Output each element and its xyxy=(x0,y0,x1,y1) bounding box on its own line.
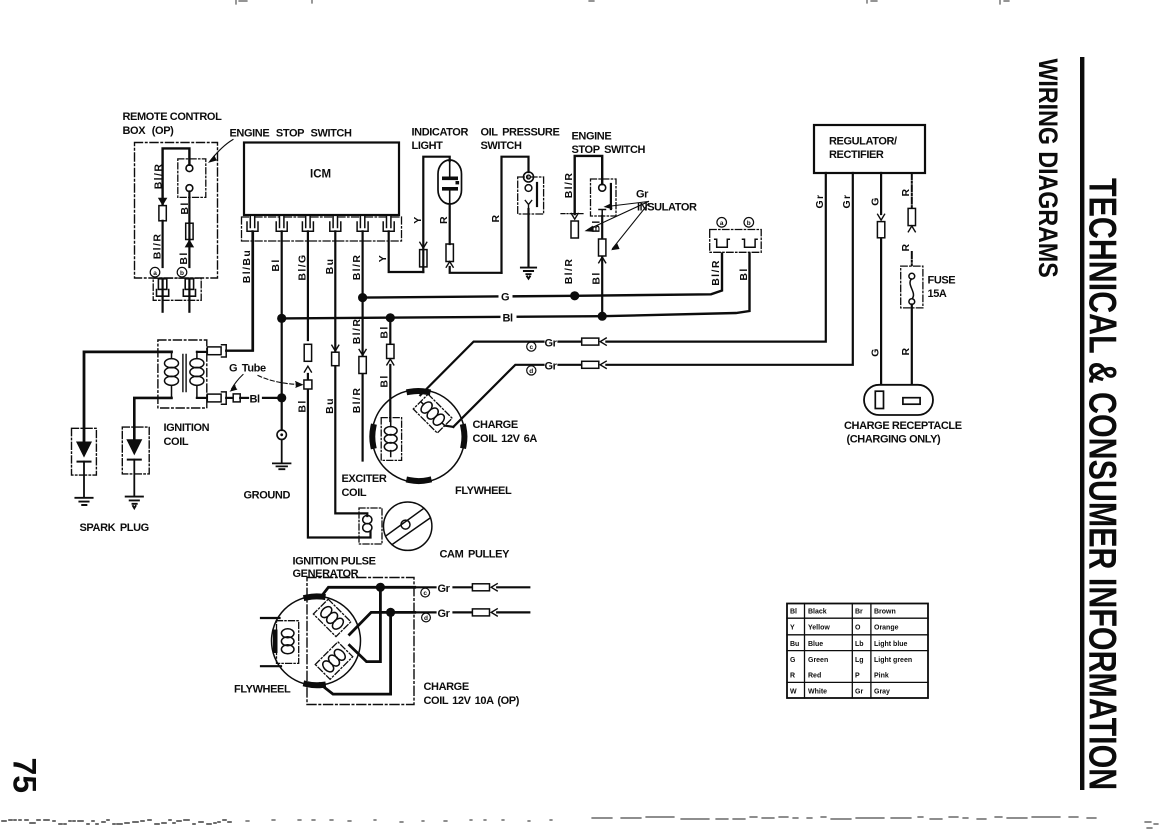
svg-text:Gr: Gr xyxy=(545,338,558,350)
connector (G): female body xyxy=(877,222,884,238)
svg-text:G: G xyxy=(869,196,881,206)
svg-text:Orange: Orange xyxy=(874,625,899,632)
cam pulley P1 disc xyxy=(384,502,432,550)
wire: remote right tail xyxy=(188,279,190,312)
svg-text:REGULATOR/: REGULATOR/ xyxy=(829,136,897,148)
svg-text:FLYWHEEL: FLYWHEEL xyxy=(234,684,291,696)
pin 1 xyxy=(247,215,258,231)
svg-text:Bl/R: Bl/R xyxy=(153,163,165,190)
svg-text:Light blue: Light blue xyxy=(874,641,908,648)
connector (SW2 right): male arrow xyxy=(599,257,606,263)
svg-text:COIL 12V 10A (OP): COIL 12V 10A (OP) xyxy=(424,695,520,707)
svg-text:a: a xyxy=(153,270,157,277)
connector (R): male arrow xyxy=(908,226,915,232)
pin 2 xyxy=(276,215,287,231)
svg-text:CHARGE: CHARGE xyxy=(473,419,518,431)
charge receptacle J1 R slot xyxy=(903,398,920,405)
svg-text:Bl/R: Bl/R xyxy=(152,233,164,260)
wire: T1 Bl/Bu terminal xyxy=(197,351,207,353)
svg-text:W: W xyxy=(790,689,797,696)
svg-text:Bl: Bl xyxy=(296,399,308,412)
flywheel FW2 pole shoes xyxy=(306,596,323,685)
svg-text:CHARGE RECEPTACLE: CHARGE RECEPTACLE xyxy=(844,420,962,432)
insulator tick on SW2 left wire xyxy=(561,213,585,215)
connector (pin5 wire): female body xyxy=(359,357,366,374)
svg-text:FLYWHEEL: FLYWHEEL xyxy=(455,485,512,497)
wire: connector to G tube xyxy=(226,397,233,399)
transformer T1 secondary winding xyxy=(190,352,204,398)
pin 5 xyxy=(357,215,368,231)
wire: E2 to ground xyxy=(133,460,135,497)
flywheel FW1 pole shoes xyxy=(372,391,464,481)
node a (remote): circled letter xyxy=(150,267,160,277)
junction: pin2 x ignition coil lead xyxy=(277,393,286,402)
connector (indicator Y): male arrow xyxy=(420,242,427,248)
spark plug E1 gap electrode xyxy=(78,461,91,463)
charge receptacle J1 G slot xyxy=(875,391,883,408)
svg-text:CAM PULLEY: CAM PULLEY xyxy=(440,549,511,561)
cam pulley P1 key slot xyxy=(386,508,431,544)
node d (lower): circled letter xyxy=(422,613,431,622)
svg-text:Bl: Bl xyxy=(179,201,191,214)
svg-text:Bl: Bl xyxy=(738,267,750,280)
node c (lower): circled letter xyxy=(421,588,430,597)
wire: VR1 pin2 Gr to charge coil L2 xyxy=(453,173,853,427)
wire: G tube to pin2 junction xyxy=(240,397,248,399)
scan artifacts: bottom edge marks xyxy=(2,820,231,824)
connector (remote right): male arrow xyxy=(186,241,193,247)
wire: ICM pin4 Bu down to cam pulse coil xyxy=(335,231,367,516)
engine stop switch SW2 contact circle xyxy=(599,184,606,191)
connector blade (remote right bottom) xyxy=(185,279,193,290)
svg-text:OIL PRESSURE: OIL PRESSURE xyxy=(481,127,560,139)
svg-text:COIL: COIL xyxy=(164,436,189,448)
pin 6 xyxy=(383,215,394,231)
connector (SW2 left): female body xyxy=(571,221,578,238)
fuse F1 housing (dash-dot) xyxy=(901,266,923,308)
oil pressure switch SW3 moving contact xyxy=(525,201,531,210)
svg-text:Light green: Light green xyxy=(874,657,912,664)
wire: VR1 pin4 R upper (dash-dot lead) xyxy=(911,173,913,208)
connector (T1 top): body xyxy=(207,347,221,355)
connector (pin3 wire): male arrow xyxy=(304,366,311,372)
wire: SW2 Bl lead xyxy=(601,216,603,316)
connector (Gr2): body and arrow xyxy=(582,361,599,368)
svg-text:EXCITER: EXCITER xyxy=(342,473,387,485)
svg-text:ICM: ICM xyxy=(310,169,331,181)
connector (exciter): female body xyxy=(387,344,394,358)
wire: ICM pin5 Bl/R stub xyxy=(362,231,364,460)
svg-text:d: d xyxy=(424,615,428,622)
wire: L4 inner to Gr d line xyxy=(350,612,415,634)
svg-text:Gr: Gr xyxy=(841,193,853,208)
svg-text:Lg: Lg xyxy=(855,657,864,664)
node a (main harness): circled letter xyxy=(717,218,727,228)
pulse pickup coil L6 winding xyxy=(281,629,294,654)
svg-text:75: 75 xyxy=(7,758,43,794)
svg-text:WIRING DIAGRAMS: WIRING DIAGRAMS xyxy=(1033,59,1063,278)
svg-text:Bl/R: Bl/R xyxy=(351,318,363,345)
svg-text:Y: Y xyxy=(790,625,795,632)
svg-text:a: a xyxy=(720,220,724,227)
svg-text:Bl: Bl xyxy=(270,258,282,271)
connector (pin5 wire): male arrow xyxy=(359,350,366,356)
connector (R): female body xyxy=(908,208,915,225)
pin 3 xyxy=(302,215,313,231)
charge coil L4 (upper diagonal) xyxy=(313,599,350,636)
svg-text:Bl: Bl xyxy=(378,325,390,338)
net label Bl on bus xyxy=(501,311,517,323)
svg-text:c: c xyxy=(423,590,427,597)
svg-text:Bl/G: Bl/G xyxy=(296,253,308,280)
wire: T1 Bl terminal xyxy=(197,397,207,399)
svg-text:Blue: Blue xyxy=(808,641,823,648)
svg-text:Brown: Brown xyxy=(874,609,896,616)
svg-text:Bl/R: Bl/R xyxy=(563,172,575,199)
wire: T1 primary low lead to spark plug E2 xyxy=(134,398,171,440)
leader arrow to SW1 xyxy=(211,140,234,161)
svg-text:R: R xyxy=(790,673,795,680)
wire: Gr c line with connector xyxy=(415,586,530,588)
svg-text:Bl: Bl xyxy=(790,609,797,616)
svg-text:Br: Br xyxy=(855,609,863,616)
svg-text:O: O xyxy=(855,625,861,632)
regulator/rectifier VR1 box xyxy=(814,125,925,173)
connector socket b xyxy=(743,239,758,247)
wire: remote box top jumper xyxy=(163,148,190,204)
svg-text:b: b xyxy=(747,220,751,227)
svg-text:Bl: Bl xyxy=(250,394,261,406)
spark plug E1 housing (dash-dot) xyxy=(72,428,97,475)
node G bus wire xyxy=(363,249,722,298)
ground G3 symbol (E1) xyxy=(75,498,92,505)
svg-text:c: c xyxy=(529,344,533,351)
svg-text:Gr: Gr xyxy=(438,583,451,595)
svg-text:BOX (OP): BOX (OP) xyxy=(123,125,175,137)
svg-text:Gr: Gr xyxy=(855,689,863,696)
svg-text:Y: Y xyxy=(377,254,389,262)
svg-text:ENGINE STOP SWITCH: ENGINE STOP SWITCH xyxy=(230,128,352,140)
svg-text:SPARK PLUG: SPARK PLUG xyxy=(80,522,149,534)
G tube marker on pin3 wire xyxy=(304,380,312,389)
wire: L5 inner to Gr c junction xyxy=(350,587,381,661)
wire: L5 outer to Gr d junction xyxy=(320,612,391,694)
oil pressure switch SW3 ring terminal xyxy=(524,172,534,182)
wire: L6 stub lower xyxy=(261,665,281,667)
junction: L5 tail on Gr d line xyxy=(386,608,395,617)
connector (indicator R): male arrow xyxy=(446,262,453,268)
svg-text:G Tube: G Tube xyxy=(229,363,266,375)
IC U1: ICM module box xyxy=(242,143,402,242)
wire: label to junction xyxy=(263,397,282,399)
wire: ICM pin6 Y to indicator light xyxy=(389,231,424,272)
exciter coil L1 housing (dash-dot) xyxy=(381,418,401,461)
svg-text:Bl/R: Bl/R xyxy=(710,259,722,286)
connector (pin3 wire): female body xyxy=(304,344,311,361)
ground G2 symbol xyxy=(521,268,536,279)
svg-text:Red: Red xyxy=(808,673,821,680)
transformer T1 primary winding xyxy=(165,352,179,398)
connector (remote left): male arrow xyxy=(159,198,166,204)
scan artifacts: top edge ticks xyxy=(236,0,1009,4)
connector (SW2 left): male arrow xyxy=(571,213,578,219)
charge receptacle J1 shell xyxy=(864,385,933,415)
svg-text:INDICATOR: INDICATOR xyxy=(412,127,469,139)
svg-text:Bu: Bu xyxy=(324,258,336,275)
wire: indicator R lead xyxy=(450,204,502,273)
wire: T1 HT lead to spark plug E1 xyxy=(84,352,172,442)
svg-text:Lb: Lb xyxy=(855,641,864,648)
svg-text:LIGHT: LIGHT xyxy=(412,140,444,152)
svg-text:b: b xyxy=(180,270,184,277)
connector (indicator R): female body xyxy=(446,244,453,262)
svg-text:P: P xyxy=(855,673,860,680)
wire: SW2 top jumper xyxy=(575,156,603,214)
node b (main harness): circled letter xyxy=(744,218,754,228)
svg-text:Gr: Gr xyxy=(814,193,826,208)
connector housing a/b (dash-dot) xyxy=(710,230,762,253)
connector (pin4 wire): female body xyxy=(332,352,339,366)
spark plug E2 electrode arrow xyxy=(127,440,141,455)
svg-text:Bl: Bl xyxy=(591,271,603,284)
svg-text:G: G xyxy=(501,292,509,304)
svg-text:COIL: COIL xyxy=(342,487,367,499)
svg-text:IGNITION: IGNITION xyxy=(164,422,210,434)
svg-text:(CHARGING ONLY): (CHARGING ONLY) xyxy=(847,434,942,446)
ground G1 symbol xyxy=(273,440,291,470)
net label G on bus xyxy=(499,290,513,302)
svg-text:FUSE: FUSE xyxy=(928,275,956,287)
remote cable connector housing (dash-dot) xyxy=(153,278,201,300)
node Bl bus wire xyxy=(282,249,750,319)
svg-text:Bl/R: Bl/R xyxy=(351,254,363,281)
node c: circled letter xyxy=(527,342,536,351)
leader arrows from INSULATOR label xyxy=(588,202,649,249)
svg-text:COIL 12V 6A: COIL 12V 6A xyxy=(473,433,538,445)
wire: ICM pin2 Bl down to ground xyxy=(281,231,283,430)
connector (indicator Y): female body xyxy=(420,250,427,267)
wire: remote left lead xyxy=(162,221,164,267)
oil pressure switch SW3 body (dash-dot) xyxy=(518,177,544,214)
wire: fuse to receptacle R xyxy=(911,305,913,385)
svg-text:Bl/Bu: Bl/Bu xyxy=(241,249,253,283)
flywheel FW2 rim xyxy=(272,596,361,685)
wire: Gr d line with connector xyxy=(415,611,530,613)
svg-text:White: White xyxy=(808,689,827,696)
flywheel FW1 rim xyxy=(372,390,465,483)
svg-text:STOP SWITCH: STOP SWITCH xyxy=(572,144,646,156)
ICM pins 1-6 with blade connectors xyxy=(247,215,394,231)
connector (SW2 right): female body xyxy=(599,239,606,256)
svg-text:IGNITION PULSE: IGNITION PULSE xyxy=(293,556,376,568)
connector (T1 bottom): body xyxy=(207,394,221,402)
svg-text:15A: 15A xyxy=(928,288,947,300)
svg-text:Bl: Bl xyxy=(378,374,390,387)
svg-text:Gr: Gr xyxy=(636,189,649,201)
oil pressure switch SW3 contact bar xyxy=(536,183,538,206)
wire: exciter coil Bl lead from bus xyxy=(389,318,391,421)
ignition pulse generator / charge coil housing (dash-dot) xyxy=(307,578,414,705)
spark plug E2 gap electrode xyxy=(128,459,141,461)
ground G4 symbol (E2) xyxy=(126,497,143,509)
svg-text:Bl/R: Bl/R xyxy=(563,258,575,285)
junction: SW2 Bl/R x G bus xyxy=(570,291,579,300)
color code legend table xyxy=(787,604,928,699)
spark plug E2 housing (dash-dot) xyxy=(122,427,149,474)
wire: indicator Y branch xyxy=(423,157,449,272)
leader: G Tube to sleeve xyxy=(232,375,244,390)
connector (pin4 wire): male arrow xyxy=(332,345,339,351)
connector (remote right): female body xyxy=(186,223,193,239)
engine stop switch SW2 body (dash-dot) xyxy=(591,179,617,216)
junction: pin2 x Bl bus xyxy=(277,314,286,323)
wire: R lead into fuse (dash-dot) xyxy=(911,252,913,273)
cam pulse pickup coil L3 housing (dash-dot) xyxy=(359,508,382,544)
pin 4 xyxy=(330,215,341,231)
wire: ICM pin3 Bl/G down to cam pulse coil xyxy=(308,231,371,537)
svg-text:R: R xyxy=(900,188,912,197)
spark plug E1 electrode arrow xyxy=(77,442,91,457)
svg-text:Yellow: Yellow xyxy=(808,625,830,632)
svg-text:R: R xyxy=(900,347,912,356)
wire: oil pressure switch R lead xyxy=(502,157,529,273)
svg-text:Pink: Pink xyxy=(874,673,889,680)
svg-text:Gr: Gr xyxy=(438,608,451,620)
leader: G Tube to pin3 sleeve (dashed) xyxy=(258,376,299,385)
svg-text:TECHNICAL & CONSUMER INFORMATI: TECHNICAL & CONSUMER INFORMATION xyxy=(1081,178,1124,790)
lamp DS1 internal electrodes xyxy=(449,160,451,177)
engine stop switch SW1 dash-dot outline xyxy=(178,159,206,198)
ICM pin connector housing (dash-dot) xyxy=(242,217,402,241)
engine stop switch SW2 lower contact stubs xyxy=(599,210,606,217)
node b (remote): circled letter xyxy=(177,267,187,277)
svg-text:Bu: Bu xyxy=(790,641,799,648)
transformer T1 core xyxy=(183,355,186,392)
wire: remote right lead xyxy=(188,192,190,268)
svg-text:R: R xyxy=(900,243,912,252)
pulse pickup coil L6 housing (dash-dot) xyxy=(277,621,299,664)
svg-text:G: G xyxy=(790,657,796,664)
svg-text:Y: Y xyxy=(412,215,424,223)
cam pulley P1 hub xyxy=(401,520,410,529)
svg-text:R: R xyxy=(438,215,450,224)
connector (remote left): female body xyxy=(159,206,166,221)
svg-text:REMOTE CONTROL: REMOTE CONTROL xyxy=(123,111,223,123)
svg-text:Black: Black xyxy=(808,609,827,616)
svg-text:Bl: Bl xyxy=(503,313,514,325)
wire: ICM pin1 Bl/Bu to ignition coil xyxy=(226,231,252,350)
svg-text:SWITCH: SWITCH xyxy=(481,140,522,152)
svg-text:d: d xyxy=(529,368,533,375)
fuse F1 element xyxy=(909,273,915,279)
remote control box (OP) enclosure xyxy=(123,111,223,312)
svg-text:Bl/R: Bl/R xyxy=(351,387,363,414)
wire: connector to pin1 riser xyxy=(226,233,253,351)
svg-text:GROUND: GROUND xyxy=(244,490,291,502)
wire: VR1 pin1 Gr to charge coil L2 xyxy=(420,173,826,395)
wire: remote left tail xyxy=(162,279,164,312)
wire: E1 to ground xyxy=(83,462,85,498)
lamp DS1 bulb envelope xyxy=(438,160,462,204)
wire: VR1 pin3 G to charge receptacle xyxy=(880,173,882,385)
charge coil L5 (lower diagonal) xyxy=(315,642,352,679)
wire: oil switch to ground xyxy=(527,209,529,267)
svg-text:Gr: Gr xyxy=(545,361,558,373)
wire: L6 stub upper xyxy=(261,617,280,619)
connector (Gr1): body and arrow xyxy=(582,338,599,345)
connector blade (remote left bottom) xyxy=(158,279,166,290)
transformer T1: ignition coil housing (dash-dot) xyxy=(158,340,207,408)
svg-text:Green: Green xyxy=(808,657,828,664)
pulse pickup coil L6 core bar xyxy=(273,630,278,654)
junction: L5 riser on Gr c line xyxy=(376,583,385,592)
svg-text:CHARGE: CHARGE xyxy=(424,681,469,693)
svg-text:G: G xyxy=(869,347,881,357)
connector (G): male arrow xyxy=(878,214,885,220)
wire: L4 outer to Gr c line xyxy=(321,587,415,597)
svg-text:RECTIFIER: RECTIFIER xyxy=(829,149,884,161)
engine stop switch SW1 contact circles xyxy=(186,165,193,172)
junction: SW2 Bl x Bl bus xyxy=(598,312,607,321)
engine stop switch SW2 contact bar xyxy=(610,184,612,209)
ground G1: ring terminal xyxy=(277,430,286,439)
svg-text:Gray: Gray xyxy=(874,689,890,696)
junction: exciter tap on Bl bus xyxy=(386,313,395,322)
exciter coil L1 winding xyxy=(384,421,397,457)
svg-text:ENGINE: ENGINE xyxy=(572,131,612,143)
G tube sleeve on T1 Bl lead xyxy=(233,394,240,402)
junction: pin5 x G bus xyxy=(358,293,367,302)
svg-text:R: R xyxy=(490,214,502,223)
connector (Gr c): body and arrow xyxy=(472,584,489,591)
connector socket a xyxy=(715,239,730,247)
connector (exciter): male arrow xyxy=(387,359,394,365)
wire: L2 stub to Gr diagonal xyxy=(445,426,454,427)
svg-text:Bl: Bl xyxy=(178,251,190,264)
connector (Gr d): body and arrow xyxy=(472,609,489,616)
charge coil L2 (12V 6A) assembly rotated 45deg xyxy=(413,394,452,433)
sidebar rule xyxy=(1080,57,1084,790)
node d: circled letter xyxy=(527,366,536,375)
cam pulse pickup coil L3 winding xyxy=(363,515,372,532)
svg-text:Bu: Bu xyxy=(324,397,336,414)
